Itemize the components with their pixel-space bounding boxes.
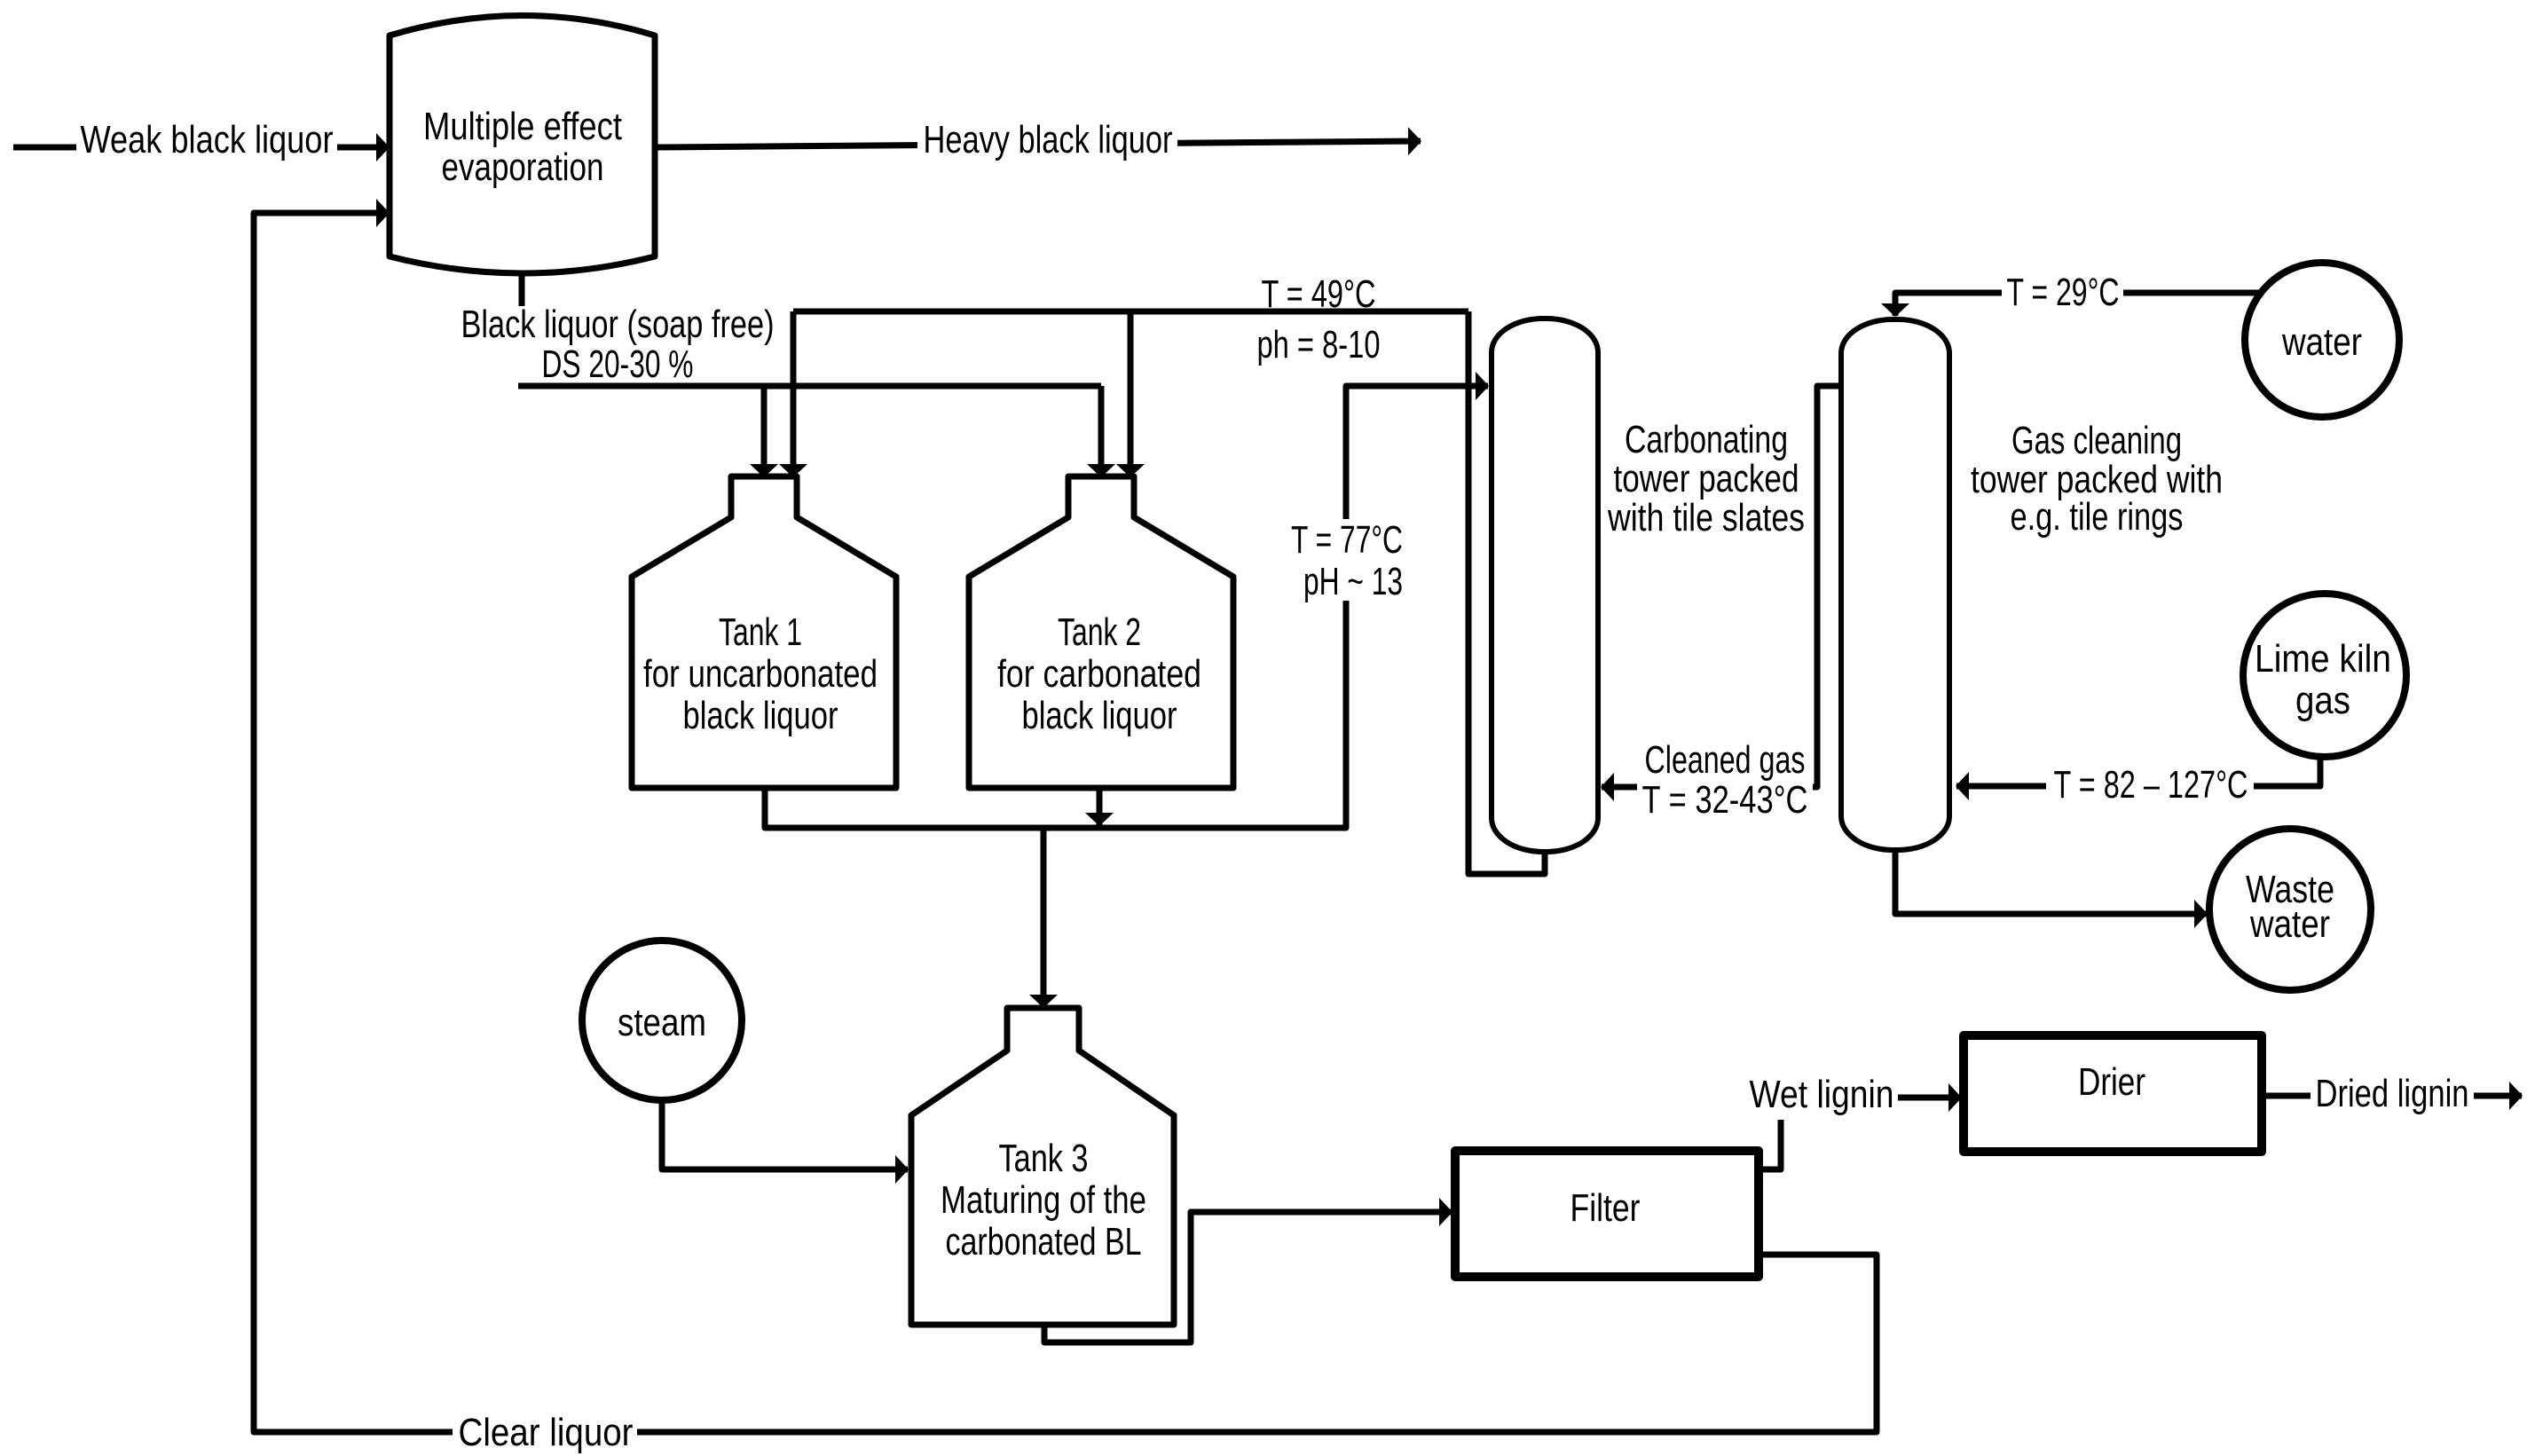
svg-text:gas: gas [2295, 679, 2350, 722]
svg-text:tower packed: tower packed [1614, 457, 1799, 500]
svg-text:T = 29°C: T = 29°C [2007, 271, 2120, 314]
svg-text:Clear liquor: Clear liquor [459, 1411, 634, 1454]
svg-text:Tank 1: Tank 1 [719, 610, 802, 654]
svg-text:evaporation: evaporation [442, 146, 604, 189]
svg-text:Multiple effect: Multiple effect [423, 105, 622, 148]
svg-text:steam: steam [618, 1001, 706, 1044]
svg-text:Carbonating: Carbonating [1625, 418, 1788, 461]
svg-text:pH ~ 13: pH ~ 13 [1303, 560, 1403, 603]
svg-text:water: water [2281, 320, 2362, 364]
svg-text:ph = 8-10: ph = 8-10 [1257, 323, 1381, 366]
svg-text:Weak black liquor: Weak black liquor [81, 118, 334, 161]
svg-text:Wet lignin: Wet lignin [1750, 1073, 1894, 1116]
svg-text:for carbonated: for carbonated [997, 652, 1201, 696]
svg-text:water: water [2249, 902, 2330, 946]
svg-text:Tank 3: Tank 3 [999, 1137, 1089, 1180]
svg-text:T = 82 – 127°C: T = 82 – 127°C [2054, 763, 2248, 807]
svg-text:Cleaned gas: Cleaned gas [1645, 738, 1806, 782]
svg-text:Filter: Filter [1571, 1186, 1641, 1230]
svg-text:T = 49°C: T = 49°C [1262, 272, 1376, 316]
svg-text:Gas cleaning: Gas cleaning [2011, 419, 2182, 462]
svg-text:Heavy black liquor: Heavy black liquor [924, 118, 1173, 161]
svg-text:for uncarbonated: for uncarbonated [643, 652, 878, 696]
svg-text:Tank 2: Tank 2 [1058, 610, 1141, 654]
svg-text:DS 20-30 %: DS 20-30 % [542, 342, 694, 386]
svg-text:Lime kiln: Lime kiln [2255, 637, 2391, 681]
svg-text:black liquor: black liquor [683, 694, 838, 737]
svg-text:black liquor: black liquor [1022, 694, 1177, 737]
svg-text:Dried lignin: Dried lignin [2316, 1072, 2469, 1115]
svg-text:Drier: Drier [2078, 1060, 2145, 1104]
svg-text:carbonated BL: carbonated BL [946, 1220, 1142, 1263]
svg-text:Maturing of the: Maturing of the [941, 1178, 1146, 1222]
svg-text:with tile slates: with tile slates [1607, 496, 1805, 539]
svg-text:e.g. tile rings: e.g. tile rings [2011, 495, 2184, 539]
svg-text:Black liquor (soap free): Black liquor (soap free) [461, 303, 775, 346]
svg-text:T = 32-43°C: T = 32-43°C [1642, 778, 1808, 822]
svg-text:T = 77°C: T = 77°C [1291, 518, 1403, 562]
